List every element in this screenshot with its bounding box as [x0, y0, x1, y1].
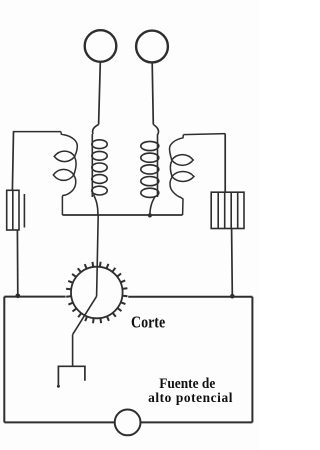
- wire left sphere to left secondary coil: [99, 62, 101, 125]
- wire top-right horizontal: [183, 134, 225, 135]
- wire bottom left horizontal: [4, 421, 115, 423]
- brush contact tip dot: [57, 385, 60, 388]
- svg-text:alto potencial: alto potencial: [148, 390, 233, 405]
- secondary coil left (5 small turns): [92, 125, 107, 216]
- primary coil left (2 large turns): [13, 132, 78, 215]
- primary coil right (2 large turns): [170, 134, 226, 215]
- interrupter arm: [73, 296, 97, 334]
- wire left frame vertical: [3, 297, 5, 423]
- wire right sphere to right secondary coil: [152, 63, 153, 125]
- secondary coil right (5 small turns): [141, 125, 159, 216]
- source (circle) in bottom wire: [115, 410, 141, 436]
- wire bar to interrupter: [97, 215, 99, 296]
- brush contact symbol: [58, 366, 85, 386]
- wire bottom right horizontal: [140, 421, 252, 423]
- junction dot bar / right secondary: [148, 213, 152, 217]
- interrupter (toothed wheel): [71, 267, 123, 319]
- wire mid left horizontal: [4, 296, 65, 298]
- wire top-left horizontal: [13, 131, 61, 133]
- wire mid right horizontal: [128, 296, 252, 298]
- svg-text:Corte: Corte: [131, 313, 165, 331]
- resistor right (hatched box): [211, 192, 244, 228]
- wire right frame vertical: [251, 297, 253, 423]
- wire arm down: [72, 335, 74, 366]
- svg-text:Fuente de: Fuente de: [159, 376, 215, 391]
- wire below left resistor: [16, 230, 18, 295]
- wire bottom bar joining coil bottoms: [62, 214, 182, 216]
- junction dot left branch / mid wire: [15, 294, 20, 299]
- wire right vertical (top corner down to resistor): [224, 134, 226, 192]
- wire below right resistor: [231, 229, 234, 296]
- terminal sphere right: [136, 31, 168, 63]
- resistor left (hatched box): [7, 190, 25, 230]
- junction dot right branch / mid wire: [230, 294, 235, 299]
- wire left vertical (top corner down to resistor): [12, 132, 13, 190]
- interrupter teeth: [66, 262, 127, 323]
- terminal sphere left: [85, 30, 117, 62]
